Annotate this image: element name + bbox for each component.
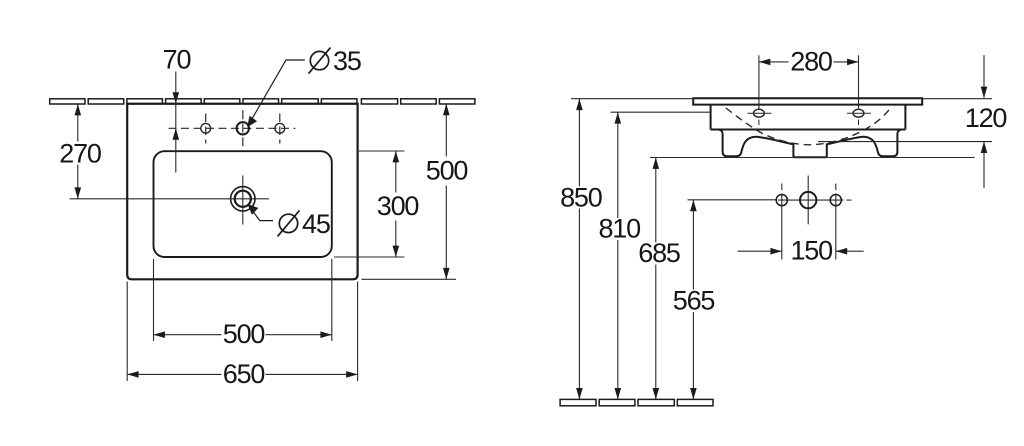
- dimension 685: [638, 158, 974, 400]
- dimension 500 width: [154, 259, 332, 349]
- svg-text:650: 650: [223, 359, 265, 389]
- svg-text:45: 45: [302, 209, 330, 239]
- svg-text:300: 300: [377, 191, 419, 221]
- drain hole center (side view): [800, 192, 816, 208]
- dimension 565: [673, 200, 776, 400]
- faucet hole left: [201, 114, 211, 144]
- dimension 650: [127, 282, 357, 389]
- basin profile body (side view): [711, 105, 906, 130]
- svg-text:70: 70: [163, 45, 191, 75]
- floor hatch line: [560, 399, 713, 405]
- leader line Ø35: [250, 60, 305, 123]
- deck hole right (side view): [847, 109, 871, 125]
- svg-text:120: 120: [965, 103, 1007, 133]
- fixing hole right (side view): [830, 195, 841, 206]
- wall hatch line (front view): [50, 99, 475, 104]
- basin inner bowl (front view): [154, 151, 332, 257]
- drain centerline (side view): [778, 176, 852, 260]
- label Ø35: [309, 46, 361, 76]
- svg-text:565: 565: [673, 285, 715, 315]
- svg-text:850: 850: [560, 182, 602, 212]
- svg-text:150: 150: [790, 236, 832, 266]
- basin apron and feet outline (side view): [719, 130, 900, 157]
- dimension 120: [818, 55, 1006, 188]
- bowl hidden line (dashed arc, side view): [726, 108, 890, 145]
- svg-text:280: 280: [790, 47, 832, 77]
- drain Ø45 (front view): [231, 187, 255, 211]
- svg-text:810: 810: [598, 214, 640, 244]
- dimension 300: [334, 151, 418, 257]
- basin outer rim (front view): [127, 104, 357, 280]
- dimension 810: [598, 112, 709, 399]
- basin profile rim plate (side view): [693, 98, 922, 104]
- svg-text:500: 500: [426, 156, 468, 186]
- dimension 850: [560, 99, 602, 400]
- fixing hole left (side view): [776, 195, 787, 206]
- svg-text:685: 685: [638, 238, 680, 268]
- dimension 150: [738, 236, 864, 266]
- label Ø45: [278, 209, 330, 239]
- deck hole left (side view): [747, 109, 771, 125]
- svg-text:500: 500: [223, 319, 265, 349]
- dimension 280: [759, 47, 859, 109]
- faucet hole right: [275, 114, 285, 144]
- drain crosshair (front view): [70, 176, 269, 225]
- dimension 270: [59, 104, 101, 199]
- svg-text:270: 270: [59, 138, 101, 168]
- faucet hole center Ø35: [237, 110, 249, 152]
- faucet-hole centerline (dashed horizontal): [169, 127, 296, 129]
- leader line Ø45: [250, 207, 274, 221]
- rim reference line (side view): [571, 98, 992, 100]
- dimension 70: [163, 45, 191, 173]
- dimension 500 height: [362, 104, 468, 279]
- svg-text:35: 35: [333, 46, 361, 76]
